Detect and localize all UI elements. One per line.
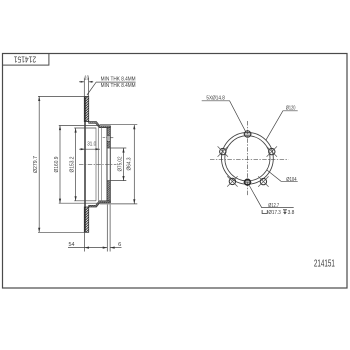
- svg-text:214151: 214151: [13, 55, 36, 64]
- lug hole edge lower: [107, 140, 110, 142]
- lug hole lower-left: [227, 176, 237, 186]
- dim 54 line: [68, 247, 107, 249]
- hat mounting face (right): [109, 126, 111, 203]
- dim 153.2 arrow bottom: [75, 196, 77, 201]
- border frame: [3, 54, 348, 289]
- dim 160.9 extension top: [59, 125, 100, 127]
- hat plate hatch mid: [107, 141, 110, 148]
- lug hole upper-left: [218, 146, 228, 156]
- svg-text:MIN THK 8.4MM: MIN THK 8.4MM: [101, 83, 136, 89]
- svg-text:MIN THK 8.4MM: MIN THK 8.4MM: [101, 76, 136, 82]
- dim 153.2 extension bottom: [74, 200, 96, 202]
- depth symbol: [283, 210, 287, 214]
- drum cavity line b: [97, 128, 99, 201]
- svg-text:Ø104: Ø104: [286, 177, 296, 183]
- dim 160.9 arrow bottom: [59, 199, 61, 204]
- dim 54 extension right: [109, 205, 111, 252]
- dim OD 279.7 extension top: [38, 95, 89, 97]
- hat flange bottom (hatched step): [89, 201, 111, 207]
- svg-text:5XØ14.8: 5XØ14.8: [206, 95, 225, 101]
- svg-text:Ø160.9: Ø160.9: [54, 157, 60, 173]
- dim 160.9 line: [59, 126, 61, 204]
- hat plate hatch upper: [107, 128, 110, 136]
- bore upper edge + extension: [107, 147, 126, 149]
- dim 31.0 arrow at disc face: [81, 148, 86, 150]
- horizontal centerline: [210, 158, 289, 160]
- leader 12.7: [249, 186, 293, 208]
- min thk leader: [87, 82, 136, 95]
- counterbore symbol: [262, 210, 267, 214]
- svg-text:Ø120: Ø120: [286, 105, 296, 111]
- dim bore 75.02 line: [123, 148, 125, 181]
- dim OD 279.7 extension bottom: [38, 231, 89, 233]
- lug hole center tick: [108, 135, 110, 140]
- dim bore arrow top: [122, 148, 124, 153]
- leader 120: [266, 111, 298, 141]
- dim hat 64.3 extension bottom: [100, 203, 138, 205]
- bolt circle ring: [225, 136, 270, 181]
- dim 10 arrow left: [81, 81, 85, 83]
- dim 160.9 arrow top: [59, 126, 61, 131]
- disc friction ring bottom (hatched): [84, 207, 88, 232]
- disc friction ring top (hatched): [84, 96, 88, 121]
- dim OD 279.7 line: [38, 96, 40, 232]
- dim 54 arrow left: [84, 247, 89, 249]
- svg-text:214151: 214151: [314, 259, 335, 270]
- dim 10 extension left: [83, 78, 85, 97]
- svg-text:Ø75.02: Ø75.02: [118, 157, 124, 172]
- dim hat 64.3 line: [133, 125, 135, 204]
- dim hat arrow bottom: [133, 199, 135, 204]
- dim hat 64.3 extension top: [100, 124, 138, 126]
- hat plate inner face: [106, 128, 108, 201]
- bore lower edge + extension: [107, 180, 126, 182]
- lug hole centerline: [103, 137, 107, 139]
- dim 153.2 line: [75, 128, 77, 201]
- dim hat arrow top: [133, 125, 135, 130]
- lug hole edge upper: [107, 134, 110, 136]
- disc outboard face line: [84, 96, 86, 232]
- dim 31.0 arrow at cavity floor: [95, 148, 100, 150]
- top hole tick: [243, 133, 252, 135]
- lug hole top: [244, 131, 250, 137]
- section centerline: [79, 163, 117, 165]
- hat plate hatch lower: [107, 181, 110, 201]
- hat outer circle: [222, 132, 274, 184]
- svg-text:Ø279.7: Ø279.7: [33, 156, 39, 173]
- dim 31.0 line: [79, 148, 100, 150]
- drum cavity line a: [95, 128, 97, 201]
- svg-text:54: 54: [69, 242, 75, 248]
- vertical centerline: [246, 121, 248, 197]
- screw hole bottom: [245, 179, 251, 185]
- dim 10 line left: [79, 81, 84, 83]
- dim 153.2 arrow top: [75, 128, 77, 133]
- hat flange top (hatched step): [89, 122, 111, 128]
- dim 10 line right: [89, 81, 94, 83]
- drum cavity floor line: [100, 128, 102, 201]
- dim 54 extension left: [83, 232, 85, 251]
- dim 54 extension mid: [106, 205, 108, 252]
- dim 10 arrow right: [89, 81, 93, 83]
- svg-text:Ø153.2: Ø153.2: [70, 157, 76, 173]
- dim 160.9 extension bottom: [59, 202, 100, 204]
- svg-text:Ø64.3: Ø64.3: [127, 158, 133, 171]
- title box top-left: [3, 54, 49, 66]
- leader 104: [267, 170, 298, 181]
- dim 6 arrow: [110, 247, 115, 249]
- svg-text:6: 6: [118, 242, 121, 248]
- svg-text:10: 10: [84, 76, 89, 82]
- dim 153.2 extension top: [74, 127, 96, 129]
- dim bore arrow bottom: [122, 176, 124, 181]
- dim 10 extension right: [88, 78, 90, 97]
- leader 5x14.8: [202, 101, 246, 131]
- svg-text:Ø17.3: Ø17.3: [268, 210, 280, 216]
- svg-text:Ø12.7: Ø12.7: [268, 203, 279, 209]
- dim OD 279.7 arrow top: [38, 96, 40, 101]
- dim 6 tail: [110, 247, 121, 249]
- lug hole lower-right: [258, 176, 268, 186]
- svg-text:31.0: 31.0: [87, 141, 96, 147]
- dim OD 279.7 arrow bottom: [38, 228, 40, 233]
- lug hole upper-right: [267, 146, 277, 156]
- svg-text:3.8: 3.8: [288, 210, 295, 216]
- dim 54 arrow right: [103, 247, 108, 249]
